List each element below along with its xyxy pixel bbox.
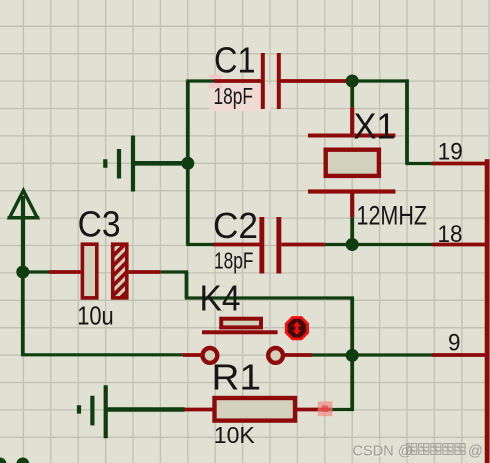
svg-text:18: 18 (438, 221, 463, 248)
svg-text:C1: C1 (214, 40, 256, 81)
svg-text:CSDN @: CSDN @ (353, 444, 413, 460)
svg-text:10u: 10u (77, 300, 114, 330)
svg-text:10K: 10K (214, 422, 256, 448)
svg-text:@: @ (468, 444, 483, 460)
svg-text:12MHZ: 12MHZ (357, 201, 428, 231)
svg-text:R1: R1 (212, 357, 262, 398)
svg-text:19: 19 (438, 138, 463, 165)
svg-text:9: 9 (448, 329, 461, 356)
svg-text:K4: K4 (200, 278, 241, 319)
svg-text:18pF: 18pF (214, 83, 254, 109)
svg-text:C3: C3 (78, 204, 121, 245)
svg-text:C2: C2 (213, 205, 258, 246)
svg-text:X1: X1 (354, 106, 396, 147)
svg-text:18pF: 18pF (214, 247, 254, 273)
